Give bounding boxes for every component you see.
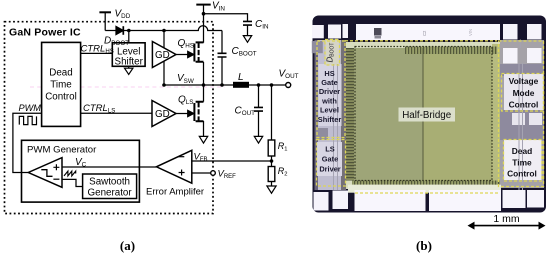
left column strip background [315,40,347,190]
node VREF terminal [211,171,216,176]
bottom pads [314,192,329,211]
ground below CIN [243,36,251,43]
comb texture left edge [346,48,354,181]
svg-text:Generator: Generator [88,188,133,199]
chip background [313,16,547,213]
wire gate LS with arrowhead [176,113,188,115]
svg-text:Control: Control [509,100,539,110]
capacitor COUT [257,83,261,87]
transistor QHS [194,42,203,62]
label Voltage Mode Control [509,76,539,109]
svg-text:Gate: Gate [322,155,338,164]
svg-text:VIN: VIN [468,29,473,36]
capacitor CIN [243,21,252,25]
right column strip background [500,40,544,188]
die divider line [422,48,424,180]
transistor QLS [194,102,203,122]
svg-text:Shifter: Shifter [318,115,342,124]
pale band above bottom pads [348,185,501,193]
wire gate HS with arrowhead [176,54,188,56]
op-amp error amplifier [156,150,191,183]
resistor R1 [270,83,274,87]
svg-text:Shifter: Shifter [115,57,144,68]
comb texture top [405,47,497,55]
wire QHS source to VSW [203,62,205,85]
wire VREF stub [192,172,211,174]
svg-text:(b): (b) [416,238,432,253]
wire QLS source to ground [203,121,205,136]
VIN rail [196,4,210,6]
svg-text:Error Amplifer: Error Amplifer [146,186,204,197]
wire comparator minus input [62,179,83,186]
label LS Gate Driver [319,144,340,173]
inductor L [233,82,249,88]
node VIN-CIN junction [202,12,206,16]
wire VFB [192,160,272,162]
ground below R2 [267,186,276,193]
label HS Gate Driver with Level Shifter [318,69,342,124]
bond wire thin lines [334,40,523,191]
svg-text:with: with [321,96,337,105]
step glyph inside comparator [41,170,52,177]
svg-text:Dead: Dead [49,68,72,79]
diode DBOOT [116,26,123,34]
svg-text:L: L [238,72,244,83]
svg-text:Gate: Gate [321,78,337,87]
comb texture bottom [352,181,500,185]
svg-text:Driver: Driver [319,87,340,96]
ground below Level Shifter [125,66,133,74]
svg-text:Half-Bridge: Half-Bridge [402,110,452,121]
label Dead Time Control [507,146,537,179]
svg-text:Dead: Dead [512,146,532,156]
svg-text:PWM Generator: PWM Generator [27,145,97,156]
op-amp GD HS driver [152,42,176,68]
main die area [346,42,500,189]
wire VSW to QLS drain [203,85,205,102]
wire boot rail with hop [123,26,222,31]
resistor R2 [268,167,275,182]
wire to CIN [204,14,248,22]
pink artifact dashed line [30,86,225,88]
svg-text:C2: C2 [422,30,427,36]
scale bar [468,222,546,230]
PWM pulse glyph [19,116,36,124]
node boot-LS junction [127,29,131,33]
svg-text:Time: Time [512,157,532,167]
box Sawtooth Generator [83,174,137,199]
wire VIN to drain [203,5,205,43]
node VFB tap [270,159,274,163]
svg-text:Voltage: Voltage [509,76,539,86]
tiny gray glyphs on top pad strip [374,28,473,39]
wire VSW node [164,84,286,86]
svg-text:Control: Control [45,92,77,103]
sawtooth glyph [64,171,76,176]
op-amp GD LS driver [152,101,176,127]
box Level Shifter [112,43,145,67]
yellow dashed outlines [317,40,544,194]
ground below COUT [254,136,262,143]
op-amp PWM comparator [28,158,62,188]
wire CTRL_LS [81,112,152,114]
top pads [312,25,324,38]
svg-text:GD: GD [155,109,170,120]
svg-text:Control: Control [507,168,537,178]
wire comparator output to PWM [13,113,42,172]
box Dead Time Control [42,42,81,126]
ground below QLS [199,136,207,143]
svg-text:Driver: Driver [319,165,340,174]
wire CTRL_HS [81,52,113,54]
node VOUT terminal [286,83,291,88]
svg-text:LS: LS [325,144,335,153]
GaN Power IC dashed box [5,22,214,214]
half-bridge dotted border [355,47,492,181]
node boot-GD junction [162,29,166,33]
svg-text:PWM: PWM [19,103,42,113]
svg-text:Mode: Mode [513,88,535,98]
svg-text:GD: GD [155,50,170,61]
wire VDD rail [99,11,111,13]
label Half-Bridge [399,108,456,122]
svg-text:HS: HS [324,69,334,78]
wire GD supply to VSW [163,31,165,86]
capacitor CBOOT [221,31,223,54]
D_BOOT strip [326,40,340,66]
box PWM Generator [22,140,140,202]
svg-text:Sawtooth: Sawtooth [89,176,130,187]
svg-text:Level: Level [320,106,339,115]
svg-text:1 mm: 1 mm [493,213,520,225]
wire VC (error amp out to comparator +) [62,166,156,168]
svg-text:GaN Power IC: GaN Power IC [9,27,81,39]
wire into Level Shifter [128,31,130,43]
svg-text:(a): (a) [120,238,135,253]
svg-text:Time: Time [50,80,72,91]
